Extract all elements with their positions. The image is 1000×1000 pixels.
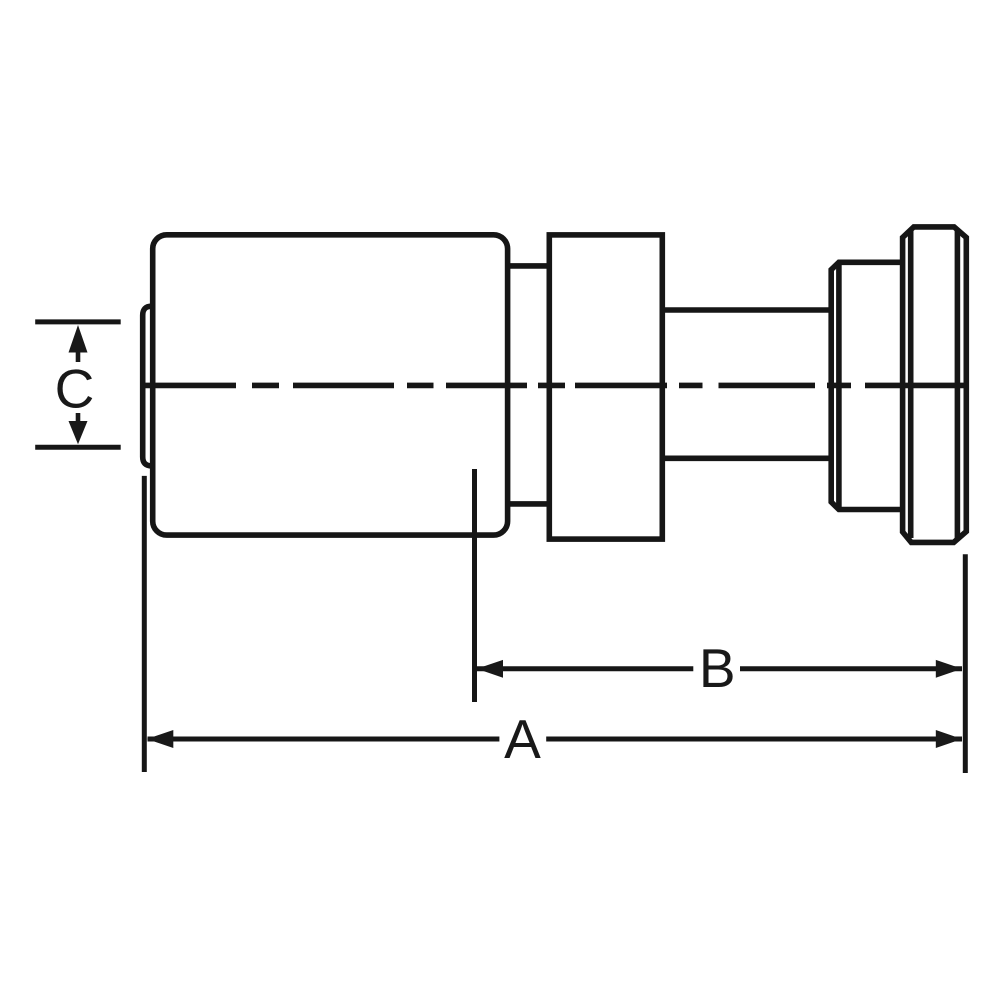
dim A left arrowhead — [147, 730, 174, 748]
centerline — [141, 383, 967, 389]
dim A extension line left — [142, 476, 147, 772]
dim A line — [148, 737, 963, 742]
neck bottom edge — [508, 501, 550, 507]
end cap outline — [903, 227, 967, 543]
svg-text:C: C — [55, 357, 95, 419]
end cap inner left edge — [908, 231, 914, 538]
shaft top edge — [662, 307, 831, 313]
hex flange — [549, 235, 662, 539]
shaft bottom edge — [662, 455, 831, 461]
end cap inner right edge — [955, 231, 961, 539]
dim B left arrowhead — [477, 660, 503, 678]
dim C bottom line — [35, 445, 121, 450]
hose-end tab — [143, 306, 154, 466]
neck top edge — [508, 263, 550, 269]
dim B line — [477, 666, 962, 671]
svg-text:A: A — [504, 708, 541, 770]
dim A right arrowhead — [936, 730, 962, 748]
svg-text:B: B — [699, 637, 736, 699]
dim C down arrow — [69, 413, 88, 444]
collar inner edge — [836, 262, 842, 509]
dim B extension line left — [472, 469, 477, 702]
dim A/B extension line right — [963, 554, 968, 773]
dim C top line — [35, 319, 121, 324]
ferrule body — [153, 235, 508, 535]
dim C up arrow — [69, 325, 88, 362]
dim B right arrowhead — [936, 660, 962, 678]
collar outline — [831, 262, 902, 509]
